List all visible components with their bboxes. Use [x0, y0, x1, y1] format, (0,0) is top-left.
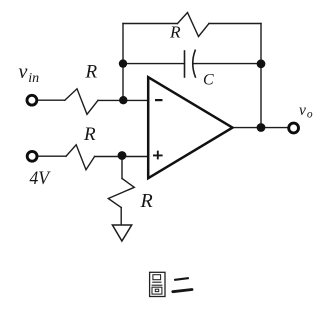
ground — [112, 225, 131, 241]
wire resistor to noninverting input — [95, 156, 147, 158]
capacitor C right curved plate — [193, 50, 196, 77]
capacitor C left plate — [184, 51, 186, 77]
resistor R inverting input — [65, 89, 98, 115]
wire output — [233, 127, 289, 129]
wire vin terminal to resistor — [39, 99, 65, 101]
junction dot output node — [257, 123, 266, 132]
svg-text:vin: vin — [19, 61, 40, 86]
wire ground branch lower — [120, 208, 122, 225]
wire top feedback right segment — [209, 23, 261, 25]
caption figure character er — [173, 278, 192, 292]
junction dot capacitor left — [119, 59, 127, 67]
op-amp plus sign — [153, 151, 163, 160]
caption figure character tu — [150, 272, 165, 296]
op-amp U1 triangle — [148, 77, 232, 178]
svg-text:R: R — [140, 190, 153, 212]
terminal vo — [289, 123, 299, 133]
wire 4V terminal to resistor — [39, 155, 66, 157]
terminal 4V — [27, 151, 37, 161]
resistor R feedback — [178, 13, 210, 37]
svg-text:R: R — [83, 124, 96, 145]
wire capacitor right lead — [194, 63, 261, 65]
svg-text:4V: 4V — [30, 168, 52, 189]
resistor R noninverting input — [66, 145, 95, 170]
wire capacitor left lead — [123, 63, 185, 65]
wire left vertical stub from feedback to inverting node — [122, 24, 124, 101]
wire resistor to inverting input — [98, 99, 147, 101]
svg-text:C: C — [203, 72, 214, 89]
junction dot inverting node — [119, 96, 127, 104]
op-amp minus sign — [155, 99, 163, 101]
resistor R ground — [108, 179, 134, 208]
junction dot capacitor right — [257, 59, 266, 68]
junction dot noninverting node — [118, 151, 127, 160]
wire right vertical from feedback to output node — [260, 24, 262, 128]
wire top feedback left segment — [123, 23, 178, 25]
svg-text:vo: vo — [299, 102, 313, 121]
svg-text:R: R — [169, 22, 181, 41]
svg-text:R: R — [85, 62, 98, 83]
terminal vin — [27, 95, 37, 105]
wire ground branch upper — [121, 156, 123, 179]
